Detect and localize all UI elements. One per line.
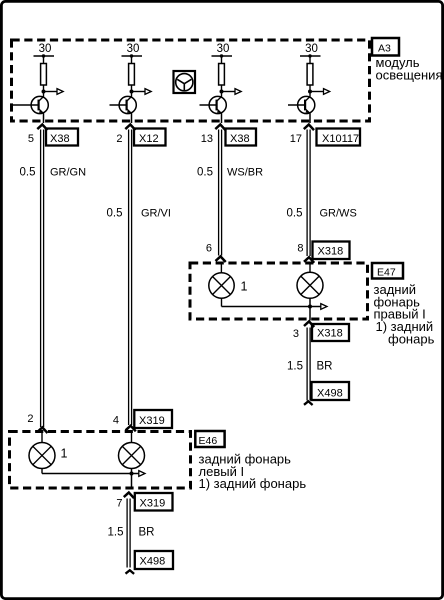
svg-text:X319: X319 (140, 498, 166, 510)
svg-text:X12: X12 (139, 133, 159, 145)
svg-text:X38: X38 (50, 133, 70, 145)
svg-text:освещения: освещения (376, 68, 443, 83)
svg-text:GR/WS: GR/WS (320, 208, 357, 220)
svg-text:30: 30 (39, 43, 52, 55)
svg-text:X319: X319 (139, 415, 165, 427)
svg-text:8: 8 (297, 243, 303, 255)
svg-text:1.5: 1.5 (108, 527, 124, 539)
svg-text:X318: X318 (317, 328, 343, 340)
svg-text:WS/BR: WS/BR (227, 167, 263, 179)
svg-text:1: 1 (241, 280, 248, 294)
svg-text:0.5: 0.5 (287, 208, 303, 220)
svg-text:1.5: 1.5 (287, 361, 303, 373)
svg-text:BR: BR (139, 527, 155, 539)
svg-text:X38: X38 (230, 133, 250, 145)
svg-text:E46: E46 (199, 435, 218, 447)
svg-text:3: 3 (293, 328, 299, 340)
svg-text:X498: X498 (140, 556, 166, 568)
svg-text:X10117: X10117 (322, 133, 359, 145)
svg-text:13: 13 (201, 133, 213, 145)
svg-text:X318: X318 (318, 246, 344, 258)
svg-text:2: 2 (116, 133, 122, 145)
svg-text:0.5: 0.5 (197, 167, 213, 179)
svg-text:1) задний фонарь: 1) задний фонарь (199, 476, 307, 491)
svg-text:17: 17 (290, 133, 302, 145)
svg-text:30: 30 (217, 43, 230, 55)
svg-text:4: 4 (113, 415, 119, 427)
svg-text:6: 6 (206, 243, 212, 255)
svg-text:0.5: 0.5 (107, 208, 123, 220)
svg-text:X498: X498 (317, 388, 343, 400)
svg-text:E47: E47 (377, 267, 396, 279)
svg-text:1: 1 (61, 447, 68, 461)
svg-text:30: 30 (305, 43, 318, 55)
svg-text:GR/GN: GR/GN (50, 167, 86, 179)
svg-text:0.5: 0.5 (20, 167, 36, 179)
svg-text:2: 2 (27, 413, 33, 425)
svg-text:BR: BR (317, 361, 333, 373)
svg-text:30: 30 (127, 43, 140, 55)
svg-text:5: 5 (28, 133, 34, 145)
svg-text:фонарь: фонарь (388, 332, 435, 347)
svg-text:GR/VI: GR/VI (141, 208, 171, 220)
svg-text:7: 7 (116, 498, 122, 510)
svg-text:A3: A3 (378, 43, 391, 55)
